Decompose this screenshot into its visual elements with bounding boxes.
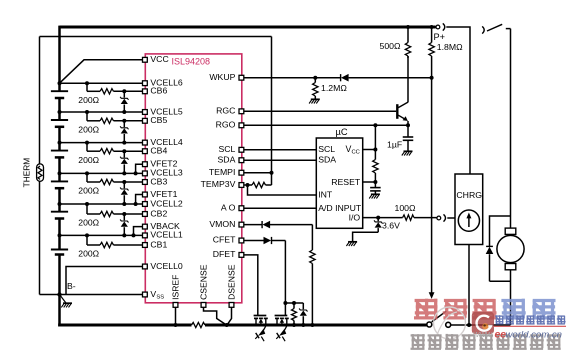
wire zener to ground xyxy=(353,232,379,242)
wire RGO xyxy=(244,124,408,126)
resistor 200ohm cell1 xyxy=(100,242,114,247)
wire RESET stub xyxy=(363,181,376,183)
svg-text:500Ω: 500Ω xyxy=(380,41,401,51)
transistor Q3 charge FET xyxy=(275,316,289,342)
wire flyback to motor bottom xyxy=(490,280,511,282)
label uC A/D INPUT xyxy=(318,203,362,213)
resistor 1.8Mohm xyxy=(429,27,434,78)
svg-text:1.8MΩ: 1.8MΩ xyxy=(437,42,463,52)
svg-text:SCL: SCL xyxy=(318,144,335,154)
svg-text:DSENSE: DSENSE xyxy=(227,264,237,300)
junction branch node 3 xyxy=(85,171,89,175)
node B- junction xyxy=(57,292,61,296)
svg-text:world.com.cn: world.com.cn xyxy=(506,330,563,341)
junction VFET1 to cell line xyxy=(134,202,138,206)
wire thermistor bottom drop xyxy=(39,181,41,295)
junction branch node 2 xyxy=(85,202,89,206)
pin VSS xyxy=(143,289,165,301)
resistor VMON pulldown xyxy=(310,250,315,264)
wire VMON drop xyxy=(311,225,313,325)
switch trigger lever xyxy=(432,311,447,322)
wire Q1 emitter to RGO xyxy=(407,121,409,125)
label 200ohm cell2 xyxy=(78,218,99,228)
battery cell B2 xyxy=(51,212,68,219)
svg-text:200Ω: 200Ω xyxy=(78,249,99,259)
wire charger input xyxy=(447,217,455,219)
wire SCL xyxy=(244,149,316,151)
wire CFET gate drop xyxy=(284,241,286,316)
label uC SDA xyxy=(318,155,336,165)
zener diode cell4 xyxy=(120,151,128,173)
svg-text:200Ω: 200Ω xyxy=(78,125,99,135)
wire P+ to charger xyxy=(446,27,470,174)
junction zener top 2 xyxy=(122,212,126,216)
terminal P+ plug xyxy=(436,25,440,29)
transistor Q1 xyxy=(397,102,408,121)
pin VCELL4 xyxy=(143,137,183,147)
zener diode cell5 xyxy=(120,121,128,143)
capacitor reset xyxy=(370,182,381,194)
svg-text:3.6V: 3.6V xyxy=(382,221,400,231)
junction zener top 6 xyxy=(122,89,126,93)
wire thermistor net vertical to TEMPI xyxy=(271,37,273,186)
junction zener top 5 xyxy=(122,119,126,123)
pin VBACK xyxy=(143,221,181,231)
watermark xyxy=(411,299,567,350)
wire TEMP3V xyxy=(244,184,272,186)
wire CB1 branch xyxy=(87,235,143,245)
pin DFET xyxy=(213,249,244,259)
junction branch node 5 xyxy=(85,110,89,114)
wire VMON xyxy=(244,224,313,226)
node B- rail left segment xyxy=(40,294,143,296)
pin TEMPI xyxy=(209,167,244,177)
label CHRG xyxy=(456,190,482,200)
pin CB3 xyxy=(143,176,168,186)
label uC INT xyxy=(318,190,333,200)
svg-text:A O: A O xyxy=(221,202,236,212)
zener diode cell2 xyxy=(120,214,128,235)
svg-text:THERM: THERM xyxy=(22,158,32,188)
wire VBACK bracket xyxy=(134,227,143,236)
pin CB1 xyxy=(143,239,168,249)
junction I/O zener xyxy=(376,216,380,220)
svg-text:CB6: CB6 xyxy=(150,86,167,96)
svg-text:TEMP3V: TEMP3V xyxy=(201,179,236,189)
junction battery node 2 xyxy=(58,202,62,206)
junction battery node 5 xyxy=(58,110,62,114)
wire CB6 branch xyxy=(87,83,143,91)
label uC SCL xyxy=(318,144,335,154)
pin CB6 xyxy=(143,86,168,96)
pin VCELL1 xyxy=(143,230,183,240)
op-amp U2 uC box xyxy=(316,138,362,228)
svg-text:CB4: CB4 xyxy=(150,146,167,156)
label uC RESET xyxy=(331,177,361,187)
rail B- bottom mid xyxy=(205,324,427,327)
svg-text:CB5: CB5 xyxy=(150,115,167,125)
svg-text:VCELL0: VCELL0 xyxy=(150,261,183,271)
wire VFET2 bracket xyxy=(136,164,143,173)
wire RGC xyxy=(244,110,396,112)
resistor 1.2Mohm xyxy=(313,78,318,100)
pin VMON xyxy=(209,219,243,229)
svg-text:CB1: CB1 xyxy=(150,239,167,249)
junction branch node 4 xyxy=(85,141,89,145)
label uC VCC xyxy=(346,144,360,156)
wire CSENSE xyxy=(204,307,227,325)
wire VCC node vertical xyxy=(374,125,376,159)
svg-text:CHRG: CHRG xyxy=(456,190,482,200)
svg-text:RGC: RGC xyxy=(216,106,235,116)
label 500ohm xyxy=(380,41,401,51)
wire VCC from pack top xyxy=(60,60,143,83)
svg-text:200Ω: 200Ω xyxy=(78,155,99,165)
transistor Q2 discharge FET xyxy=(254,316,268,342)
junction CFET gate net xyxy=(283,301,287,305)
junction TEMP3V node xyxy=(246,183,250,187)
svg-text:ISL94208: ISL94208 xyxy=(172,57,211,67)
svg-text:200Ω: 200Ω xyxy=(78,95,99,105)
pin VCELL3 xyxy=(143,168,183,178)
junction zener top 3 xyxy=(122,180,126,184)
junction VBACK to cell line xyxy=(132,233,136,237)
junction RGO/emitter xyxy=(406,123,410,127)
resistor 100ohm xyxy=(403,215,414,220)
zener 3.6V xyxy=(374,218,382,233)
battery cell B1 xyxy=(51,250,68,255)
wire motor top stub xyxy=(510,216,512,228)
ground 3.6V xyxy=(346,242,357,246)
svg-text:SDA: SDA xyxy=(318,155,336,165)
label uC xyxy=(336,127,348,137)
junction charger rail xyxy=(467,323,471,327)
junction gate res rail xyxy=(292,323,296,327)
wire motor branch xyxy=(490,216,511,246)
label 1uF xyxy=(387,140,402,150)
junction battery node 1 xyxy=(58,233,62,237)
rail B- bottom left xyxy=(58,324,191,327)
wire VCELL2 line xyxy=(60,203,143,205)
label 200ohm cell4 xyxy=(78,155,99,165)
terminal charger input plug xyxy=(437,216,441,220)
junction branch node 1 xyxy=(85,233,89,237)
switch trigger contact A xyxy=(427,322,432,327)
resistor 200ohm cell2 xyxy=(100,211,114,216)
label 200ohm cell5 xyxy=(78,125,99,135)
thermistor THERM xyxy=(37,164,44,181)
op-amp U1 ISL94208 box xyxy=(145,54,242,303)
junction battery node 4 xyxy=(58,141,62,145)
pin VCELL5 xyxy=(143,106,183,116)
svg-text:VCELL2: VCELL2 xyxy=(150,198,183,208)
pin CB2 xyxy=(143,208,168,218)
junction zener bottom 2 xyxy=(122,233,126,237)
junction zener bottom 5 xyxy=(122,141,126,145)
wire VCELL3 line xyxy=(60,172,143,174)
resistor TEMP3V xyxy=(252,182,266,187)
junction TEMPI/therm xyxy=(270,171,274,175)
pin WKUP xyxy=(209,72,243,82)
label 1.2Mohm xyxy=(321,83,347,93)
svg-text:ISREF: ISREF xyxy=(171,275,181,300)
label uC I/O xyxy=(349,212,361,222)
battery cell B3 xyxy=(51,181,68,188)
svg-text:TEMPI: TEMPI xyxy=(209,167,236,177)
wire TEMPI xyxy=(244,172,272,174)
wire gate net xyxy=(285,302,303,304)
label THERM xyxy=(22,158,32,188)
junction branch node 6 xyxy=(85,81,89,85)
resistor 200ohm cell4 xyxy=(100,149,114,154)
label ISL94208 xyxy=(172,57,211,67)
junction VMON rail xyxy=(310,323,314,327)
junction zener bottom 4 xyxy=(122,171,126,175)
pin VCC xyxy=(143,54,169,64)
wire WKUP trigger sense xyxy=(431,78,433,293)
svg-text:www.: www. xyxy=(473,329,494,339)
label 200ohm cell1 xyxy=(78,249,99,259)
junction 1.8M/WKUP xyxy=(430,76,434,80)
charger CHRG box xyxy=(455,174,483,245)
svg-text:VCELL1: VCELL1 xyxy=(150,230,183,240)
junction zener bottom 3 xyxy=(122,202,126,206)
zener diode cell3 xyxy=(120,182,128,204)
pin VFET2 xyxy=(143,159,178,169)
resistor 200ohm cell6 xyxy=(100,89,114,94)
svg-text:100Ω: 100Ω xyxy=(395,203,416,213)
svg-text:µC: µC xyxy=(336,127,348,137)
wire VCELL6 line xyxy=(60,82,143,84)
svg-text:VFET1: VFET1 xyxy=(150,189,177,199)
junction 500ohm top xyxy=(406,25,410,29)
zener gate protect xyxy=(299,303,307,325)
svg-text:1µF: 1µF xyxy=(387,140,402,150)
junction battery node 3 xyxy=(58,171,62,175)
wire motor bottom xyxy=(510,270,512,325)
pin SDA xyxy=(218,154,244,164)
label 200ohm cell6 xyxy=(78,95,99,105)
pin VFET1 xyxy=(143,189,178,199)
svg-text:VCC: VCC xyxy=(150,54,168,64)
wire thermistor top line xyxy=(40,36,272,38)
pin CFET xyxy=(213,235,244,245)
diode D1 on WKUP xyxy=(341,74,349,82)
svg-text:200Ω: 200Ω xyxy=(78,218,99,228)
svg-text:CSENSE: CSENSE xyxy=(199,264,209,300)
svg-text:INT: INT xyxy=(318,190,333,200)
wire VFET1 bracket xyxy=(136,195,143,205)
junction VFET2 to cell line xyxy=(134,171,138,175)
ground 1.2M xyxy=(309,99,320,103)
zener diode cell6 xyxy=(120,91,128,112)
pin A O xyxy=(221,202,244,212)
svg-text:P+: P+ xyxy=(434,32,446,42)
switch trigger top xyxy=(487,24,502,31)
motor M1 xyxy=(497,228,524,270)
label P+ xyxy=(434,32,446,42)
connector motor plug xyxy=(482,26,484,33)
resistor 200ohm cell5 xyxy=(100,118,114,123)
svg-text:B-: B- xyxy=(67,281,76,291)
svg-text:RESET: RESET xyxy=(331,177,361,187)
pin ISREF xyxy=(171,275,181,308)
pin RGO xyxy=(216,120,244,130)
wire pack+ top rail xyxy=(60,26,436,29)
label 200ohm cell3 xyxy=(78,186,99,196)
junction zener bottom 6 xyxy=(122,110,126,114)
switch trigger contact B xyxy=(446,322,451,327)
wire CB5 branch xyxy=(87,112,143,121)
junction uC VCC xyxy=(373,148,377,152)
wire uC VCC stub xyxy=(363,149,376,151)
pin TEMP3V xyxy=(201,179,244,189)
junction WKUP/1.2M xyxy=(313,76,317,80)
svg-text:200Ω: 200Ω xyxy=(78,186,99,196)
svg-text:ee: ee xyxy=(495,330,507,341)
connector charger input socket xyxy=(444,214,446,221)
pin SCL xyxy=(218,144,243,154)
wire to RESET xyxy=(374,173,376,182)
capacitor 1uF xyxy=(403,125,414,151)
label 100ohm xyxy=(395,203,416,213)
svg-text:DFET: DFET xyxy=(213,249,236,259)
wire VCELL5 line xyxy=(60,111,143,113)
label B- xyxy=(67,281,76,291)
pin CB5 xyxy=(143,115,168,125)
resistor reset pullup xyxy=(373,160,378,174)
junction zener top 4 xyxy=(122,149,126,153)
svg-text:VMON: VMON xyxy=(209,219,235,229)
wire INT xyxy=(248,185,317,195)
connector P+ socket xyxy=(443,23,445,30)
svg-text:WKUP: WKUP xyxy=(209,72,235,82)
svg-text:SS: SS xyxy=(156,295,164,301)
diode D2 on VMON xyxy=(262,221,270,229)
wire VCELL4 line xyxy=(60,142,143,144)
wire WKUP xyxy=(244,77,432,79)
pin DSENSE xyxy=(227,264,237,307)
resistor 200ohm cell3 xyxy=(100,179,114,184)
svg-text:SDA: SDA xyxy=(218,154,236,164)
pin VCELL6 xyxy=(143,78,183,88)
svg-text:RGO: RGO xyxy=(216,120,236,130)
wire I/O xyxy=(363,217,437,219)
wire SDA xyxy=(244,159,316,161)
label 3.6V xyxy=(382,221,400,231)
wire CB4 branch xyxy=(87,143,143,152)
junction battery node 6 xyxy=(58,81,62,85)
svg-text:I/O: I/O xyxy=(349,212,361,222)
pin CSENSE xyxy=(199,264,209,307)
chassis ground at B- xyxy=(60,295,73,308)
svg-text:CB2: CB2 xyxy=(150,208,167,218)
wire CFET xyxy=(244,240,286,242)
wire thermistor left drop xyxy=(39,37,41,165)
ground reset cap xyxy=(369,194,380,198)
svg-text:CC: CC xyxy=(352,149,360,155)
junction RGO/uC-VCC xyxy=(373,123,377,127)
ground 1uF xyxy=(402,151,413,155)
pin VCELL2 xyxy=(143,198,183,208)
battery cell B4 xyxy=(51,151,68,158)
wire DSENSE xyxy=(227,307,231,324)
diode D4 flyback xyxy=(486,246,494,281)
wire VCELL0 xyxy=(66,267,143,295)
label 1.8Mohm xyxy=(437,42,463,52)
wire DFET xyxy=(244,255,258,316)
svg-text:SCL: SCL xyxy=(218,144,235,154)
wire switch to motor xyxy=(506,29,511,216)
wire Q1 collector xyxy=(407,56,409,102)
rail after switch xyxy=(451,324,511,326)
wire CB3 branch xyxy=(87,173,143,182)
svg-text:1.2MΩ: 1.2MΩ xyxy=(321,83,347,93)
wire VCELL1 line xyxy=(60,234,143,236)
resistor sense RS xyxy=(192,322,206,327)
arrow trigger xyxy=(429,292,435,299)
svg-text:CB3: CB3 xyxy=(150,176,167,186)
charger current source symbol xyxy=(458,210,479,231)
wire CB2 branch xyxy=(87,204,143,214)
junction gate net resistor xyxy=(292,301,296,305)
junction sense rail xyxy=(225,323,229,327)
pin VCELL0 xyxy=(143,261,183,271)
diode D3 on CFET xyxy=(264,237,272,245)
junction gate zener rail xyxy=(301,323,305,327)
wire charger bottom xyxy=(468,245,470,326)
svg-text:CFET: CFET xyxy=(213,235,236,245)
pin RGC xyxy=(216,106,244,116)
wire ISREF xyxy=(175,307,177,325)
battery cell B6 xyxy=(51,91,68,98)
junction RESET xyxy=(373,180,377,184)
battery cell B5 xyxy=(51,120,68,127)
junction ISREF rail xyxy=(174,323,178,327)
wire battery stack column xyxy=(58,26,61,327)
junction 1.8M top xyxy=(430,25,434,29)
resistor gate pulldown xyxy=(292,303,297,325)
resistor 500ohm xyxy=(405,27,410,58)
pin CB4 xyxy=(143,146,168,156)
wire AO xyxy=(244,207,316,209)
